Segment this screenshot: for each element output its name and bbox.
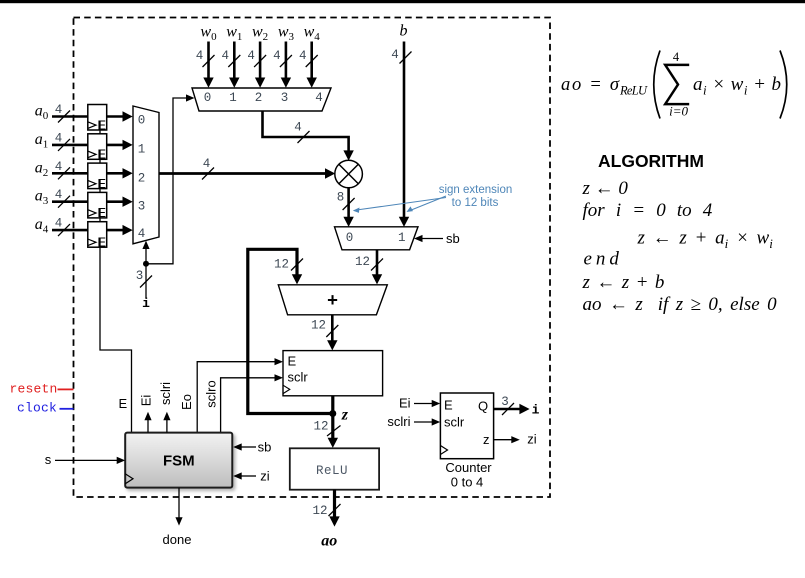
register R2 xyxy=(88,163,107,191)
svg-text:1: 1 xyxy=(229,91,237,105)
wire M1 select (i) xyxy=(146,94,195,263)
svg-text:ao ← z if z ≥ 0, else 0: ao ← z if z ≥ 0, else 0 xyxy=(583,294,778,315)
input w4 (4-bit) xyxy=(299,24,320,88)
register R0 xyxy=(88,105,107,133)
block ReLU xyxy=(290,448,379,489)
svg-text:sign extension: sign extension xyxy=(439,184,513,196)
node z xyxy=(329,396,349,424)
svg-text:4: 4 xyxy=(315,91,323,105)
fsm U1 xyxy=(125,433,232,488)
svg-text:4: 4 xyxy=(222,49,230,63)
svg-text:to 12 bits: to 12 bits xyxy=(452,197,499,209)
svg-text:4: 4 xyxy=(273,49,281,63)
input w0 (4-bit) xyxy=(196,24,217,88)
input clock xyxy=(17,401,74,416)
svg-text:E: E xyxy=(97,176,106,191)
wire multiplier output (8-bit) xyxy=(337,188,355,227)
svg-text:ReLU: ReLU xyxy=(316,464,348,478)
svg-text:4: 4 xyxy=(55,160,63,174)
svg-text:resetn: resetn xyxy=(10,382,58,397)
svg-text:4: 4 xyxy=(299,49,307,63)
register R3 xyxy=(88,192,107,220)
svg-text:i: i xyxy=(532,403,540,418)
svg-text:8: 8 xyxy=(337,191,345,205)
svg-text:ALGORITHM: ALGORITHM xyxy=(598,151,704,171)
svg-text:z ← 0: z ← 0 xyxy=(582,178,629,199)
wire zi to FSM xyxy=(233,469,270,484)
wire E label xyxy=(118,396,127,411)
svg-text:12: 12 xyxy=(312,504,327,518)
wire sb to FSM xyxy=(233,440,271,455)
node i select junction xyxy=(136,241,152,311)
wire R0 to M2 xyxy=(106,111,132,121)
wire R1 to M2 xyxy=(106,140,132,150)
svg-text:4: 4 xyxy=(138,227,146,241)
multiplier xyxy=(335,160,363,188)
svg-text:sb: sb xyxy=(446,231,460,246)
output done xyxy=(163,488,192,547)
output ao (12-bit) xyxy=(312,490,340,550)
svg-text:b: b xyxy=(400,23,408,40)
counter U2 xyxy=(440,393,493,490)
svg-text:E: E xyxy=(97,117,106,132)
svg-text:2: 2 xyxy=(138,172,146,186)
svg-text:ao: ao xyxy=(321,533,337,550)
input b (4-bit) xyxy=(391,23,411,227)
svg-text:Eo: Eo xyxy=(179,394,194,410)
svg-text:Q: Q xyxy=(478,399,488,414)
svg-text:for i = 0 to 4: for i = 0 to 4 xyxy=(583,200,713,221)
svg-text:sclr: sclr xyxy=(288,370,309,385)
svg-text:4: 4 xyxy=(673,50,680,64)
svg-text:0: 0 xyxy=(346,231,354,245)
svg-text:zi: zi xyxy=(260,469,270,484)
wire z to ReLU (12-bit) xyxy=(313,414,340,448)
register ACC (E, sclr) xyxy=(283,351,383,396)
svg-text:ao = σ: ao = σ xyxy=(561,75,620,95)
svg-text:ReLU: ReLU xyxy=(619,84,648,98)
svg-text:2: 2 xyxy=(255,91,263,105)
svg-text:E: E xyxy=(444,398,453,413)
svg-text:E: E xyxy=(118,396,127,411)
svg-text:4: 4 xyxy=(55,188,63,202)
input w3 (4-bit) xyxy=(273,24,294,88)
wire adder output (12-bit) xyxy=(311,315,338,351)
wire R3 to M2 xyxy=(106,197,132,207)
svg-text:i=0: i=0 xyxy=(669,104,688,119)
svg-text:12: 12 xyxy=(311,319,326,333)
svg-text:E: E xyxy=(288,354,297,369)
svg-text:end: end xyxy=(584,249,623,270)
input a0 (4-bit) xyxy=(35,103,88,123)
svg-text:z ← z + ai × wi: z ← z + ai × wi xyxy=(637,228,774,252)
svg-text:z: z xyxy=(341,406,349,423)
wire Ei to counter xyxy=(399,396,440,411)
wire counter Q output i (3-bit) xyxy=(494,395,540,418)
input a3 (4-bit) xyxy=(35,188,88,208)
svg-text:i: i xyxy=(142,296,150,311)
svg-text:+: + xyxy=(327,289,338,310)
wire M2 output (4-bit) xyxy=(159,157,335,180)
svg-text:s: s xyxy=(45,452,52,467)
mux M3 (sign-extend select) xyxy=(335,227,419,250)
adder xyxy=(278,285,387,315)
wire sclri to counter xyxy=(387,414,440,429)
svg-text:3: 3 xyxy=(501,395,509,409)
wire sclro (FSM to ACC sclr) xyxy=(204,374,284,432)
svg-text:4: 4 xyxy=(391,48,399,62)
input a4 (4-bit) xyxy=(35,216,88,236)
wire sb to M3 select xyxy=(414,231,460,246)
wire E enable bus to input registers xyxy=(100,122,132,433)
wire Ei stub (FSM output) xyxy=(139,395,154,433)
annotation: sign extension to 12 bits xyxy=(353,184,512,213)
svg-text:sclro: sclro xyxy=(204,380,219,407)
register R1 xyxy=(88,134,107,162)
svg-text:FSM: FSM xyxy=(163,453,195,470)
mux M1 (weights) xyxy=(192,88,331,111)
svg-text:1: 1 xyxy=(138,143,146,157)
svg-text:4: 4 xyxy=(55,217,63,231)
wire feedback z to adder (12-bit) xyxy=(248,249,333,413)
svg-text:z ← z + b: z ← z + b xyxy=(582,272,665,293)
svg-text:1: 1 xyxy=(398,231,406,245)
svg-text:Ei: Ei xyxy=(399,396,411,411)
input a2 (4-bit) xyxy=(35,159,88,179)
svg-text:4: 4 xyxy=(294,121,302,135)
svg-text:4: 4 xyxy=(196,49,204,63)
svg-text:E: E xyxy=(97,205,106,220)
svg-text:3: 3 xyxy=(136,269,144,283)
svg-text:3: 3 xyxy=(138,200,146,214)
wire R2 to M2 xyxy=(106,168,132,178)
svg-text:0 to 4: 0 to 4 xyxy=(451,475,484,490)
svg-text:zi: zi xyxy=(527,432,537,447)
svg-text:done: done xyxy=(163,532,192,547)
input w2 (4-bit) xyxy=(247,24,268,88)
register R4 xyxy=(88,222,107,250)
svg-text:clock: clock xyxy=(17,401,57,416)
svg-text:ai × wi + b: ai × wi + b xyxy=(693,74,782,98)
svg-text:Counter: Counter xyxy=(445,460,492,475)
mux M2 (activations) xyxy=(133,106,159,244)
wire counter z output zi xyxy=(494,432,537,447)
svg-text:4: 4 xyxy=(203,157,211,171)
svg-text:sclri: sclri xyxy=(387,414,410,429)
wire R4 to M2 xyxy=(106,225,132,235)
svg-text:3: 3 xyxy=(281,91,289,105)
svg-text:E: E xyxy=(97,235,106,250)
svg-text:4: 4 xyxy=(55,131,63,145)
algorithm pseudocode xyxy=(582,178,778,315)
wire M3 output (12-bit) xyxy=(355,250,383,285)
svg-text:12: 12 xyxy=(274,258,289,272)
input w1 (4-bit) xyxy=(222,24,243,88)
svg-text:12: 12 xyxy=(313,420,328,434)
wire M1 output (4-bit) xyxy=(263,112,354,161)
svg-text:0: 0 xyxy=(138,114,146,128)
svg-text:sclr: sclr xyxy=(444,415,465,430)
svg-text:0: 0 xyxy=(204,91,212,105)
svg-text:z: z xyxy=(483,432,490,447)
svg-text:sclri: sclri xyxy=(158,382,173,405)
svg-text:E: E xyxy=(97,147,106,162)
input s xyxy=(45,452,125,467)
svg-text:4: 4 xyxy=(247,49,255,63)
wire sclri stub (FSM output) xyxy=(158,382,173,433)
input a1 (4-bit) xyxy=(35,131,88,151)
circuit boundary (dashed) xyxy=(74,18,551,498)
svg-text:sb: sb xyxy=(258,440,272,455)
svg-text:Ei: Ei xyxy=(139,395,154,407)
svg-text:4: 4 xyxy=(55,103,63,117)
equation ao = sigma_ReLU( sum a_i w_i + b ) xyxy=(561,50,787,119)
wire Eo (FSM to ACC E) xyxy=(179,358,283,433)
input resetn xyxy=(10,382,74,397)
svg-text:12: 12 xyxy=(355,255,370,269)
